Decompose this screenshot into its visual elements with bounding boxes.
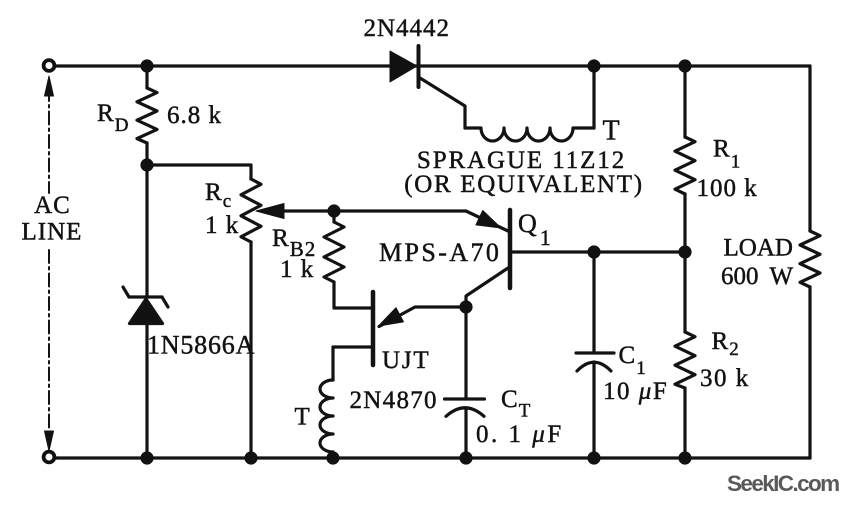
node R1 top	[678, 59, 691, 72]
node coil top right	[587, 59, 600, 72]
thyristor 2N4442	[390, 46, 465, 128]
svg-text:6.8 k: 6.8 k	[167, 102, 222, 129]
arrow wiper of Rc	[256, 204, 284, 219]
svg-text:100 k: 100 k	[697, 175, 758, 202]
wire R1 bottom lead	[683, 194, 686, 252]
resistor R1 100k	[675, 137, 695, 194]
wire RB2 top lead	[332, 211, 335, 222]
node UJT emitter junction	[459, 300, 472, 313]
svg-text:UJT: UJT	[382, 347, 430, 374]
wire C1 bottom lead	[592, 362, 595, 458]
arrow AC up	[45, 76, 54, 96]
node bottom CT	[459, 451, 472, 464]
arrow AC down	[45, 431, 54, 451]
node bottom zener	[140, 451, 153, 464]
wire CT bottom lead	[464, 408, 467, 458]
resistor LOAD 600W	[800, 231, 820, 287]
node wiper-RB2	[327, 204, 340, 217]
node bottom R2	[678, 451, 691, 464]
node bottom coil	[326, 451, 339, 464]
svg-text:2N4870: 2N4870	[350, 387, 438, 414]
wire right edge upper	[808, 66, 811, 231]
resistor RB2 1k	[324, 222, 344, 282]
resistor RD 6.8k	[137, 88, 157, 143]
wire R1 top lead	[683, 66, 686, 137]
wire UJT emitter lead	[379, 307, 466, 327]
wire R2 top lead	[683, 252, 686, 332]
transistor UJT 2N4870 bar	[371, 292, 376, 365]
wire bottom bus	[55, 456, 810, 459]
svg-text:1 k: 1 k	[280, 256, 314, 283]
wire Q1 base lead to divider	[510, 250, 685, 253]
svg-text:Rc: Rc	[205, 179, 231, 212]
wire right edge lower	[808, 287, 811, 458]
wire CT top lead	[464, 307, 467, 399]
transistor Q1 MPS-A70 bar	[508, 210, 513, 288]
wire coil right lead up	[592, 66, 595, 128]
wire node RD-zener to Rc	[147, 165, 251, 179]
wire R2 bottom lead	[683, 388, 686, 458]
node RD bottom	[140, 158, 153, 171]
svg-text:AC: AC	[34, 192, 71, 219]
wire Q1 collector lead	[466, 268, 508, 307]
wire wiper bus to Q1 emitter	[264, 211, 508, 231]
wire zener branch lower	[145, 324, 148, 459]
inductor T winding (top, SPRAGUE 11Z12)	[465, 128, 594, 141]
svg-text:SPRAGUE 11Z12: SPRAGUE 11Z12	[417, 147, 626, 174]
svg-text:CT: CT	[501, 386, 531, 422]
arrow UJT emitter	[375, 308, 404, 333]
svg-text:RD: RD	[97, 100, 128, 136]
wire RD top lead	[145, 66, 148, 88]
svg-text:LINE: LINE	[22, 219, 83, 246]
terminal top-left	[44, 60, 55, 71]
AC line arrow dashed upper	[48, 88, 50, 193]
arrow Q1 emitter	[476, 210, 505, 235]
svg-text:C1: C1	[619, 342, 646, 379]
svg-text:0. 1 μF: 0. 1 μF	[476, 421, 564, 448]
svg-text:1 k: 1 k	[205, 212, 239, 239]
diode zener 1N5866A	[123, 287, 168, 324]
svg-text:1N5866A: 1N5866A	[147, 331, 255, 360]
svg-text:30 k: 30 k	[700, 365, 750, 392]
terminal bottom-left	[44, 452, 55, 463]
capacitor CT 0.1uF	[445, 399, 485, 416]
wire Rc bottom lead	[249, 242, 252, 458]
node base-C1	[587, 245, 600, 258]
svg-text:Q1: Q1	[518, 209, 552, 250]
potentiometer Rc 1k body	[241, 179, 261, 242]
svg-text:R2: R2	[712, 328, 739, 360]
inductor T winding (lower)	[320, 380, 333, 452]
svg-text:R1: R1	[713, 136, 740, 173]
node bottom C1	[587, 451, 600, 464]
wire coil bottom lead	[331, 452, 334, 458]
svg-text:MPS-A70: MPS-A70	[379, 238, 501, 267]
capacitor C1 10uF	[576, 353, 614, 371]
svg-text:SeekIC.com: SeekIC.com	[727, 471, 839, 496]
wire zener branch upper	[145, 165, 148, 297]
AC line arrow dashed lower	[48, 250, 50, 437]
svg-text:T: T	[295, 404, 311, 431]
node base-divider	[678, 245, 691, 258]
node bottom Rc	[244, 451, 257, 464]
svg-text:2N4442: 2N4442	[364, 15, 451, 42]
resistor R2 30k	[675, 332, 695, 388]
wire C1 top lead	[592, 252, 595, 353]
svg-text:T: T	[603, 116, 621, 147]
wire UJT base1 lead	[333, 347, 373, 380]
svg-text:(OR EQUIVALENT): (OR EQUIVALENT)	[404, 171, 644, 198]
svg-text:10 μF: 10 μF	[603, 378, 668, 405]
svg-text:LOAD: LOAD	[724, 235, 793, 262]
wire RB2 bottom lead to UJT base2	[334, 282, 371, 308]
node RD top	[140, 59, 153, 72]
wire top bus	[55, 64, 810, 67]
svg-text:600W: 600W	[721, 263, 794, 290]
wire RD bottom lead	[145, 143, 148, 165]
